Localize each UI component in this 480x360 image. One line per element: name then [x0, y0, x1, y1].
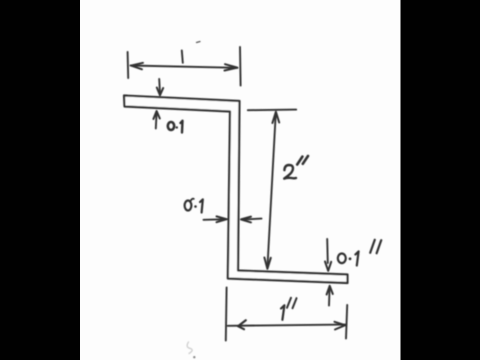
Z-section outline (top flange, web, bottom flange) — [124, 96, 348, 284]
label 2 — [284, 165, 296, 179]
top dimension right extension line — [239, 47, 242, 86]
faint smudge bottom left — [187, 342, 192, 354]
top dimension left extension line — [127, 52, 130, 78]
bottom flange thickness lower arrow (up) — [328, 287, 331, 306]
top dimension line — [131, 66, 238, 68]
label 0.1 (top flange) — [168, 122, 174, 130]
bottom dimension right arrowhead — [335, 322, 346, 330]
top dimension right arrowhead — [225, 64, 238, 70]
left letterbox bar — [0, 0, 80, 360]
top flange thickness upper arrow (down) — [158, 79, 161, 94]
2-inch dimension bottom arrowhead — [264, 258, 270, 269]
label 1 (top) — [182, 51, 183, 63]
label 1 (bottom) — [281, 305, 284, 320]
top flange thickness lower arrow (up) — [155, 113, 158, 129]
web thickness left arrow — [204, 218, 224, 221]
bottom dimension right extension line — [346, 305, 347, 339]
bottom dimension left arrowhead — [238, 320, 246, 329]
label double prime (0.1") — [370, 240, 375, 253]
label 0.1 (bottom flange) — [338, 253, 346, 263]
bottom dimension line — [228, 325, 345, 326]
2-inch dimension line — [267, 113, 275, 269]
bottom flange thickness upper arrow (down) — [326, 239, 329, 263]
label 0.1 (web thickness) — [185, 201, 192, 211]
web thickness right arrow — [245, 218, 262, 221]
stray tick mark — [197, 42, 201, 43]
2-inch dimension top extension line — [248, 109, 296, 112]
label double prime (2") — [297, 157, 302, 165]
label double prime (1") — [287, 298, 291, 308]
top dimension left arrowhead — [131, 63, 143, 70]
2-inch dimension top arrowhead — [272, 112, 279, 123]
bottom dimension left extension line — [225, 288, 228, 341]
right letterbox bar — [401, 0, 480, 360]
